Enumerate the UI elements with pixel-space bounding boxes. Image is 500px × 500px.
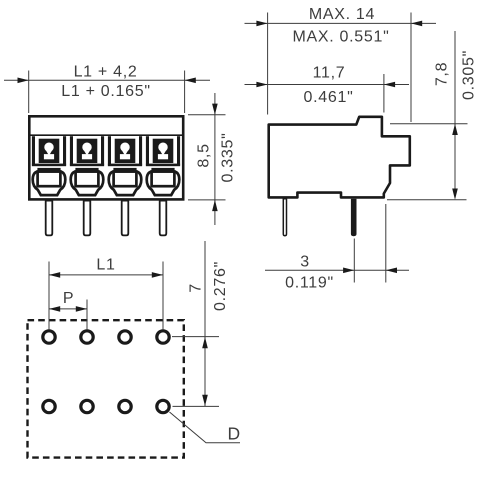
pole 3 housing bottom bar xyxy=(108,164,142,167)
pole 1 housing right wall xyxy=(63,136,66,165)
dim 3 right extension line xyxy=(385,204,387,283)
pole 4 housing bottom bar xyxy=(146,164,180,167)
pole 3 slot window xyxy=(120,154,130,159)
dim 7 bottom extension line xyxy=(173,405,220,407)
svg-text:0.119": 0.119" xyxy=(285,274,334,291)
dim max14 left arrow xyxy=(256,21,267,27)
pole 2 clamp top plate xyxy=(75,168,98,170)
drill hole A1 xyxy=(43,331,55,343)
front pin 2 xyxy=(84,201,91,236)
dim L1 line xyxy=(49,274,163,276)
drill hole A4 xyxy=(157,331,169,343)
drill hole B1 xyxy=(43,400,55,412)
pole 4 clamp top plate xyxy=(151,168,174,170)
dim 11,7 right arrow xyxy=(384,82,395,88)
side view rear pin xyxy=(351,199,357,236)
pole 3 housing left wall xyxy=(108,136,111,165)
pole 3 screw neck xyxy=(122,151,128,156)
dim P right arrow xyxy=(76,306,87,312)
pole 2 screw neck xyxy=(84,151,90,156)
svg-text:0.461": 0.461" xyxy=(304,89,354,106)
pole 3 screw head (white circle) xyxy=(120,143,129,152)
svg-text:0.335": 0.335" xyxy=(220,133,237,183)
svg-text:11,7: 11,7 xyxy=(313,65,346,82)
svg-text:7,8: 7,8 xyxy=(434,62,451,86)
dim 3 line xyxy=(265,269,409,271)
dim height line xyxy=(214,93,216,225)
dim width right extension line xyxy=(184,71,186,114)
pole 4 housing left wall xyxy=(146,136,149,165)
dim max14 right extension line xyxy=(410,13,412,123)
svg-text:3: 3 xyxy=(300,254,310,271)
pole 2 housing left wall xyxy=(70,136,73,165)
pole 1 screw slot block xyxy=(39,139,60,163)
dim 7,8 down arrow xyxy=(452,189,458,200)
dim L1 left extension line xyxy=(48,262,50,330)
drill hole A3 xyxy=(119,331,131,343)
dim 7 up arrow xyxy=(202,337,208,348)
svg-text:8,5: 8,5 xyxy=(196,143,213,167)
dim 11,7 line xyxy=(245,84,410,86)
dim 11,7 left arrow xyxy=(256,82,267,88)
pole 4 screw head (white circle) xyxy=(158,143,167,152)
dim 7 top extension line xyxy=(172,336,219,338)
dim P right extension line xyxy=(86,300,88,330)
svg-text:7: 7 xyxy=(187,283,204,293)
dim 3 left extension line xyxy=(353,239,355,283)
dim width line xyxy=(4,79,210,81)
drill hole B3 xyxy=(119,400,131,412)
dim height top arrow xyxy=(212,104,218,115)
pole 3 screw slot block xyxy=(115,139,136,163)
pole 3 clamp window xyxy=(114,172,137,187)
footprint dashed outline xyxy=(28,320,184,457)
dim height bottom arrow xyxy=(212,200,218,211)
svg-text:L1 + 0.165": L1 + 0.165" xyxy=(61,83,150,100)
front view lid line xyxy=(29,134,184,136)
dim width right arrow xyxy=(185,78,196,84)
dim width left arrow xyxy=(18,78,29,84)
svg-text:0.305": 0.305" xyxy=(461,50,478,100)
front pin 4 xyxy=(160,201,167,236)
front pin 1 xyxy=(46,201,53,236)
dim 7,8 line xyxy=(454,31,456,196)
pole 4 clamp window xyxy=(152,172,175,187)
pole 4 screw neck xyxy=(160,151,166,156)
dim 7,8 bottom extension line xyxy=(387,199,467,201)
dim P left arrow xyxy=(49,306,60,312)
dim L1 right extension line xyxy=(162,262,164,330)
dim 3 left arrow xyxy=(343,268,354,274)
dim 7 line xyxy=(204,241,206,406)
pole 4 slot window xyxy=(158,154,168,159)
dim 7,8 up arrow xyxy=(452,124,458,135)
svg-text:MAX. 14: MAX. 14 xyxy=(309,6,375,23)
svg-text:0.276": 0.276" xyxy=(212,261,229,311)
pole 2 clamp window xyxy=(76,172,99,187)
dim max14 line xyxy=(245,22,437,24)
front view body outline xyxy=(29,116,183,199)
pole 2 slot window xyxy=(82,154,92,159)
pole 1 clamp top plate xyxy=(37,168,60,170)
svg-text:L1: L1 xyxy=(96,257,115,274)
dim L1 left arrow xyxy=(49,272,60,278)
pole 3 housing right wall xyxy=(139,136,142,165)
dim height top extension line xyxy=(188,114,226,116)
pole 4 clamp barrel xyxy=(147,171,180,195)
leader line D xyxy=(170,412,241,443)
svg-text:MAX. 0.551": MAX. 0.551" xyxy=(293,29,390,46)
pole 2 screw slot block xyxy=(77,139,98,163)
pole 1 screw neck xyxy=(46,151,52,156)
pole 4 screw slot block xyxy=(153,139,174,163)
dim 7 down arrow xyxy=(202,395,208,406)
svg-text:D: D xyxy=(227,423,240,443)
pole 2 housing right wall xyxy=(101,136,104,165)
drill hole B2 xyxy=(81,400,93,412)
svg-text:L1 + 4,2: L1 + 4,2 xyxy=(74,63,138,80)
dim height bottom extension line xyxy=(188,199,226,201)
dim width left extension line xyxy=(28,71,30,114)
pole 1 housing left wall xyxy=(32,136,35,165)
pole 3 clamp barrel xyxy=(109,171,142,195)
dim 7,8 top extension line xyxy=(390,123,468,125)
pole 4 housing right wall xyxy=(177,136,180,165)
side view front pin xyxy=(283,199,286,236)
pole 1 screw head (white circle) xyxy=(44,143,53,152)
pole 2 clamp barrel xyxy=(71,171,104,195)
dim P line xyxy=(49,308,87,310)
side view body outline xyxy=(269,117,410,198)
dim max14 left extension line xyxy=(267,13,269,115)
dim 3 right arrow xyxy=(386,268,397,274)
pole 1 clamp barrel xyxy=(33,171,66,195)
dim 11,7 right extension line xyxy=(383,74,385,113)
drill hole A2 xyxy=(81,331,93,343)
pole 2 housing bottom bar xyxy=(70,164,104,167)
pole 2 screw head (white circle) xyxy=(82,143,91,152)
dim max14 right arrow xyxy=(411,21,422,27)
svg-text:P: P xyxy=(63,290,74,307)
pole 3 clamp top plate xyxy=(113,168,136,170)
pole 1 housing bottom bar xyxy=(32,164,66,167)
front pin 3 xyxy=(122,201,129,236)
drill hole B4 xyxy=(157,400,169,412)
pole 1 slot window xyxy=(44,154,54,159)
dim L1 right arrow xyxy=(152,272,163,278)
pole 1 clamp window xyxy=(38,172,61,187)
